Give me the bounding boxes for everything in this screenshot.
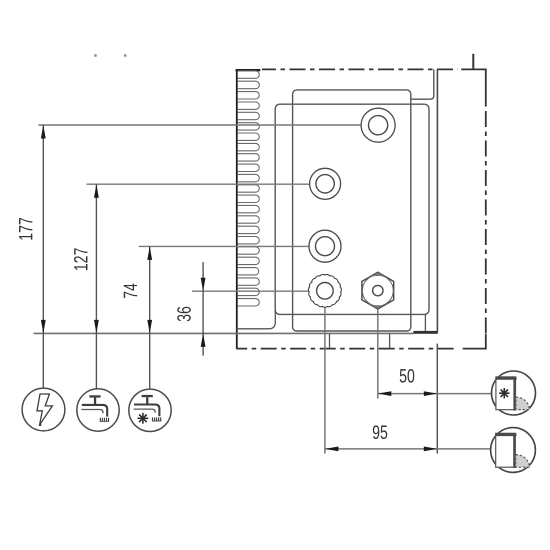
label 36	[177, 307, 191, 322]
side wall inner line with top return	[411, 69, 434, 99]
label 50	[400, 369, 415, 383]
dimension line 50	[378, 393, 492, 395]
extension from hex nut down	[377, 296, 379, 399]
shaded wedge	[516, 397, 529, 409]
asterisk cold	[499, 392, 509, 394]
dimension line 127	[95, 184, 97, 389]
pipe stub right	[389, 333, 391, 349]
heat exchanger fin column left line	[236, 69, 238, 348]
symbol circle cold water tap	[129, 389, 171, 431]
shaded wedge	[516, 455, 530, 468]
boundary dash-dot top edge	[262, 68, 458, 70]
extension line y184	[86, 183, 316, 185]
pipe sleeve rect	[496, 433, 516, 467]
boundary corner top-right	[461, 69, 486, 106]
bottom dark edge	[413, 331, 437, 334]
extension line y291	[192, 290, 317, 292]
lightning bolt	[37, 394, 52, 425]
label 177	[19, 218, 32, 240]
fin teeth	[238, 71, 260, 78]
symbol circle electrical	[22, 388, 65, 431]
extension line y246	[139, 245, 316, 247]
label 127	[74, 248, 87, 270]
dimension line 74	[149, 246, 151, 389]
wall-template tick top right	[472, 54, 474, 70]
dimension baseline	[34, 332, 414, 334]
hex nut	[362, 272, 394, 309]
connection circle C1 (flue/top)	[361, 108, 395, 142]
side wall outer line	[436, 69, 438, 332]
speck right	[124, 54, 126, 56]
label 74	[124, 284, 137, 299]
extension line y125 (flue)	[38, 124, 368, 126]
knurled nut C4	[308, 274, 341, 307]
speck left	[94, 54, 96, 56]
boundary dash-dot bottom edge	[237, 348, 459, 350]
front flange bottom-left	[237, 310, 275, 329]
boundary corner bottom-right	[463, 334, 486, 349]
pipe sleeve rect	[496, 377, 516, 410]
extension line right x437	[436, 344, 438, 454]
boundary dash-dot right edge	[485, 107, 487, 335]
symbol circle hot water tap	[77, 389, 119, 431]
label 95	[373, 425, 387, 439]
dimension line 95	[325, 448, 491, 450]
connection circle C2	[310, 168, 341, 199]
fin column top cap	[236, 69, 261, 71]
step below plate right	[424, 314, 426, 331]
cold asterisk	[138, 417, 149, 419]
mounting plate (rect B)	[275, 104, 429, 314]
extension from knurled nut down	[324, 299, 326, 454]
symbol circle hot water pipe (right bottom)	[491, 428, 536, 473]
symbol circle cold water pipe (right top)	[492, 371, 536, 415]
connection circle C3	[309, 230, 341, 262]
dimension line 177	[42, 125, 44, 388]
pipe stub left	[329, 334, 331, 349]
rear panel (rect A)	[293, 90, 411, 331]
tap symbol with asterisk	[142, 395, 153, 397]
dimension line 36 (outside arrows)	[202, 262, 204, 356]
tap symbol	[89, 395, 100, 397]
